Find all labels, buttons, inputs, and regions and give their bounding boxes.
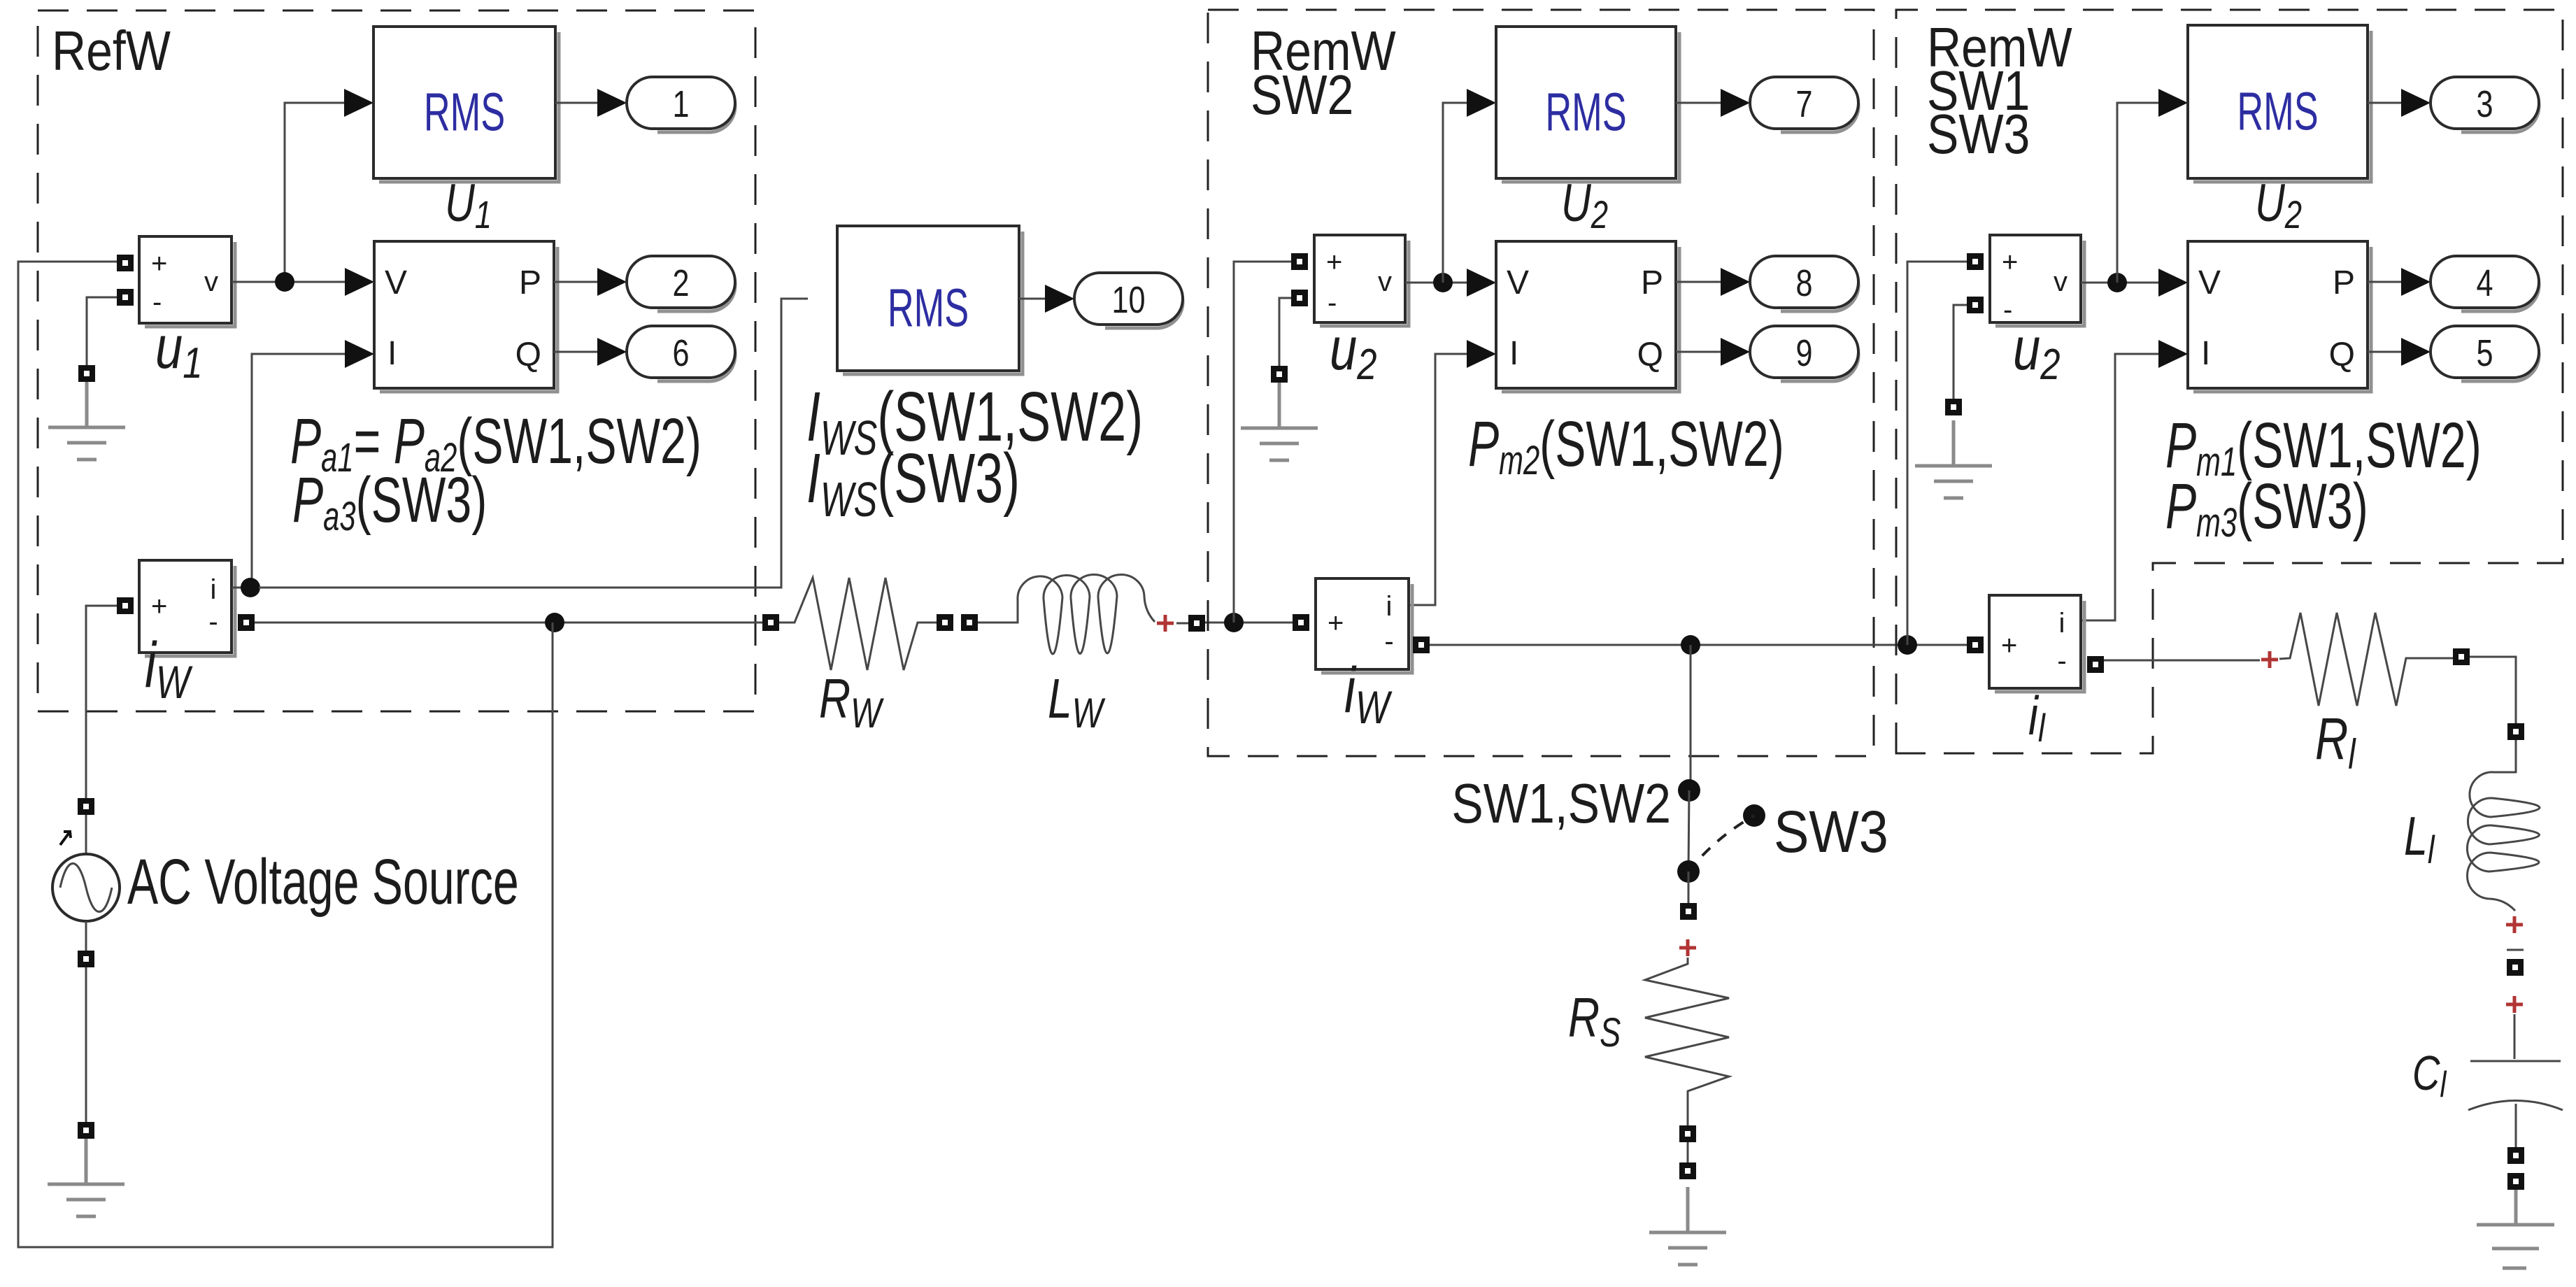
label Iws(SW3) (806, 439, 1020, 526)
svg-text:5: 5 (2476, 333, 2493, 375)
node return junction (545, 613, 564, 632)
current sensor iW2 (1316, 578, 1412, 673)
wire junction up to u2b plus (1907, 262, 1967, 645)
power measurement block Pa (374, 241, 557, 392)
ground for RS (1649, 1187, 1726, 1265)
label SW3 (right) (1927, 103, 2030, 165)
node u2b v junction (2107, 273, 2127, 292)
ground for u2b (1915, 420, 1992, 498)
wire to RS (1688, 872, 1690, 903)
RMS block U2 (1496, 27, 1679, 182)
svg-text:AC Voltage Source: AC Voltage Source (127, 845, 519, 917)
svg-text:1: 1 (672, 84, 689, 126)
port u2 plus (1291, 253, 1308, 270)
power measurement block Pm2 (1496, 241, 1679, 392)
svg-text:SW3: SW3 (1927, 103, 2030, 165)
label Pa3(SW3) (292, 463, 487, 539)
port RS bottom (1679, 1125, 1696, 1142)
wire AC minus to ground (85, 967, 87, 1122)
outport 3 (2431, 77, 2539, 132)
RMS block U1 (373, 27, 559, 182)
port RS top (1680, 903, 1697, 920)
outport 1 (627, 77, 735, 132)
svg-text:SW3: SW3 (1774, 799, 1888, 865)
wire iW2.i to power block I input (1409, 354, 1467, 605)
ground for u1 (48, 382, 125, 460)
outport 8 (1750, 256, 1858, 311)
svg-text:+: + (1328, 608, 1344, 639)
label u1 (155, 313, 202, 387)
wire junction up to u2 plus (1234, 262, 1293, 623)
polarity plus Cl (2506, 996, 2523, 1013)
svg-text:i: i (2059, 608, 2065, 639)
svg-text:8: 8 (1795, 263, 1812, 305)
svg-text:v: v (1378, 266, 1392, 297)
svg-text:Q: Q (1637, 336, 1663, 374)
wire u1 plus outer loop (18, 262, 553, 1247)
label SW1,SW2 (1451, 772, 1671, 834)
wire iW i to middle RMS block (259, 299, 808, 588)
wire RMS U1 to outport 1 (555, 102, 597, 104)
svg-text:V: V (1507, 264, 1529, 301)
svg-text:Pm3(SW3): Pm3(SW3) (2165, 469, 2368, 545)
svg-text:9: 9 (1795, 333, 1812, 375)
wire il.i to power block I input (2081, 354, 2158, 620)
port u2b minus (1967, 297, 1984, 313)
label u2b (2013, 315, 2060, 389)
ground for AC source (48, 1139, 124, 1216)
label U1 (445, 173, 492, 236)
label RS (1568, 987, 1621, 1056)
port Ll top (2507, 723, 2524, 740)
subsystem boundary RemW SW1 SW3 (1896, 10, 2563, 753)
svg-text:-: - (2003, 294, 2012, 325)
port AC source minus (78, 951, 94, 967)
svg-text:7: 7 (1795, 84, 1812, 126)
port RW left (762, 614, 779, 631)
label U2b (2255, 173, 2302, 236)
wire P output to outport 4 (2368, 281, 2401, 283)
svg-text:-: - (2057, 646, 2066, 676)
resistor Rl (2279, 613, 2454, 706)
svg-text:P: P (1641, 264, 1663, 301)
port iW2 plus (1293, 614, 1309, 631)
label Pa1 = Pa2(SW1,SW2) (290, 404, 702, 480)
label RemW (right) (1927, 16, 2072, 78)
subsystem boundary RemW SW2 (1208, 10, 1874, 756)
svg-text:SW2: SW2 (1251, 64, 1353, 126)
label SW3 (1774, 799, 1888, 865)
RMS block Iws (837, 226, 1023, 374)
outport 6 (627, 326, 735, 381)
wire Rl to Ll (2470, 657, 2516, 723)
label Pm1(SW1,SW2) (2165, 408, 2482, 484)
svg-text:+: + (151, 591, 167, 622)
port AC source plus (78, 798, 94, 815)
node u2 branch junction (1224, 613, 1244, 632)
port Rl right (2453, 648, 2470, 665)
port ground u2 (1271, 366, 1288, 383)
svg-text:+: + (1326, 247, 1342, 278)
inductor LW (978, 574, 1155, 654)
wire junction up to RMS U2 input (1443, 103, 1467, 283)
svg-text:10: 10 (1111, 280, 1145, 322)
wire Q output to outport 9 (1676, 351, 1721, 353)
outport 2 (627, 256, 735, 311)
wire u2.v to power block V input (1405, 282, 1467, 284)
label iW (145, 629, 193, 708)
wire LW to iW2 plus (1205, 622, 1293, 624)
label Pm2(SW1,SW2) (1468, 407, 1784, 483)
wire RS ports (1687, 1142, 1689, 1162)
power measurement block Pm1 (2188, 241, 2371, 392)
svg-text:i: i (1386, 591, 1393, 622)
label RW (819, 668, 884, 737)
svg-text:3: 3 (2476, 84, 2493, 126)
node iW i junction (241, 578, 260, 597)
label Iws(SW1,SW2) (806, 378, 1143, 464)
wire u2b minus to ground (1954, 305, 1967, 399)
svg-text:I: I (1509, 335, 1518, 372)
svg-text:RMS: RMS (424, 81, 505, 142)
port il plus (1967, 637, 1984, 653)
svg-text:SW1,SW2: SW1,SW2 (1451, 772, 1671, 834)
wire RMS Iws to outport 10 (1019, 298, 1045, 300)
svg-text:Pa3(SW3): Pa3(SW3) (292, 463, 487, 539)
wire junction up to RMS U2b input (2117, 103, 2158, 283)
wire Q output to outport 6 (554, 351, 597, 353)
wire RMS U2 to outport 7 (1676, 102, 1721, 104)
svg-text:v: v (2054, 266, 2068, 297)
wire iW minus bus to RW (255, 622, 764, 624)
label SW1 (right) (1927, 59, 2030, 122)
svg-text:I: I (2201, 335, 2210, 372)
port RW right (937, 614, 953, 631)
wire u2 minus to ground (1279, 298, 1291, 366)
port u1 plus (117, 255, 134, 271)
outport 5 (2431, 326, 2539, 381)
outport 4 (2431, 256, 2539, 311)
polarity plus RS (1679, 939, 1696, 956)
label U2 (1561, 173, 1608, 236)
port ground AC (78, 1122, 94, 1139)
node SW3 (1743, 804, 1765, 827)
label Cl (2412, 1046, 2447, 1105)
wire u2b.v to power block V input (2081, 282, 2158, 284)
label il (2028, 685, 2046, 750)
node SW1,SW2 (1678, 779, 1700, 802)
wire to Cl (2514, 1014, 2516, 1059)
svg-text:RMS: RMS (1545, 81, 1626, 142)
resistor RW (779, 578, 938, 670)
node u2b branch junction (1898, 635, 1917, 655)
port Ll bottom (2507, 959, 2524, 976)
outport 10 (1074, 273, 1183, 328)
wire u1.v to power block V input (232, 281, 345, 283)
wire P output to outport 8 (1676, 281, 1721, 283)
svg-text:RMS: RMS (888, 277, 969, 338)
wire iW2 minus bus to il plus (1430, 644, 1967, 646)
port Ll bottom (2507, 949, 2524, 951)
port u1 minus (117, 289, 134, 306)
port u2 minus (1291, 290, 1308, 306)
RMS block U2b (2188, 25, 2371, 182)
svg-text:+: + (151, 248, 167, 279)
voltage sensor u1 (139, 236, 235, 327)
voltage sensor u2 (1314, 235, 1409, 326)
polarity plus LW (1157, 615, 1174, 632)
subsystem boundary RefW (38, 10, 755, 711)
capacitor Cl (2468, 1061, 2563, 1110)
polarity plus Rl (2261, 651, 2278, 668)
svg-text:6: 6 (672, 333, 689, 375)
port iW2 minus (1413, 637, 1430, 653)
label SW2 (middle) (1251, 64, 1353, 126)
label Ll (2404, 806, 2435, 872)
wire Cl to ground (2515, 1104, 2517, 1147)
svg-text:I: I (387, 335, 397, 372)
svg-text:-: - (1328, 287, 1337, 318)
wire switch closed path (1688, 790, 1689, 872)
wire il minus to Rl (2104, 660, 2260, 662)
svg-text:P: P (2333, 264, 2355, 301)
wire iW plus to AC source (86, 606, 117, 798)
svg-text:V: V (385, 264, 407, 301)
svg-text:Q: Q (515, 336, 541, 374)
label RemW (middle) (1251, 20, 1396, 82)
polarity plus Ll (2506, 916, 2523, 933)
port u2b plus (1967, 253, 1984, 270)
label RefW (52, 20, 171, 82)
label LW (1048, 668, 1106, 737)
label Rl (2315, 706, 2356, 778)
wire P output to outport 2 (554, 281, 597, 283)
svg-text:Q: Q (2329, 336, 2355, 374)
current sensor iW (139, 560, 235, 656)
port LW left (961, 614, 978, 631)
ground for u2 (1241, 383, 1318, 460)
svg-text:2: 2 (672, 263, 689, 305)
port iW minus (238, 614, 255, 631)
svg-text:V: V (2198, 264, 2221, 301)
wire u1.v to RMS U1 input (285, 103, 344, 282)
svg-text:-: - (208, 606, 218, 637)
node u2 v junction (1433, 273, 1453, 292)
node switch junction (1681, 635, 1700, 655)
wire Q output to outport 5 (2368, 351, 2401, 353)
port Cl bottom (2507, 1147, 2524, 1164)
svg-text:P: P (519, 264, 541, 301)
outport 9 (1750, 326, 1858, 381)
wire iW.i to power block I input (252, 354, 345, 588)
node u1 v junction (275, 272, 294, 292)
outport 7 (1750, 77, 1858, 132)
port ground RS (1679, 1162, 1696, 1179)
svg-text:RefW: RefW (52, 20, 171, 82)
svg-text:+: + (2002, 247, 2018, 278)
svg-text:RMS: RMS (2237, 80, 2318, 141)
voltage sensor u2b (1990, 235, 2084, 326)
port iW plus (117, 597, 134, 614)
resistor RS (1645, 958, 1729, 1125)
port ground u1 (78, 365, 95, 382)
label u2 (1330, 315, 1376, 389)
label Pm3(SW3) (2165, 469, 2368, 545)
current sensor il (1989, 595, 2084, 692)
label AC Voltage Source (127, 845, 519, 917)
port LW right (1188, 615, 1205, 632)
port ground u2b (1945, 399, 1962, 415)
svg-text:-: - (1384, 626, 1393, 657)
wire RMS U2b to outport 3 (2368, 102, 2401, 104)
wire switch drop (1690, 645, 1692, 790)
ground for Cl (2477, 1190, 2554, 1268)
AC voltage source (52, 815, 120, 951)
inductor Ll (2467, 740, 2540, 911)
wire iW.i output (232, 587, 259, 589)
svg-text:4: 4 (2476, 263, 2493, 305)
svg-text:+: + (2001, 630, 2017, 661)
label iW2 (1344, 654, 1393, 733)
port ground Cl (2507, 1173, 2524, 1190)
wire SW3 dashed (1688, 816, 1754, 872)
wire u1 minus to ground (87, 297, 117, 365)
svg-text:v: v (204, 266, 218, 297)
node switch lower (1677, 860, 1700, 883)
port il minus (2087, 656, 2104, 673)
svg-text:i: i (211, 574, 217, 605)
